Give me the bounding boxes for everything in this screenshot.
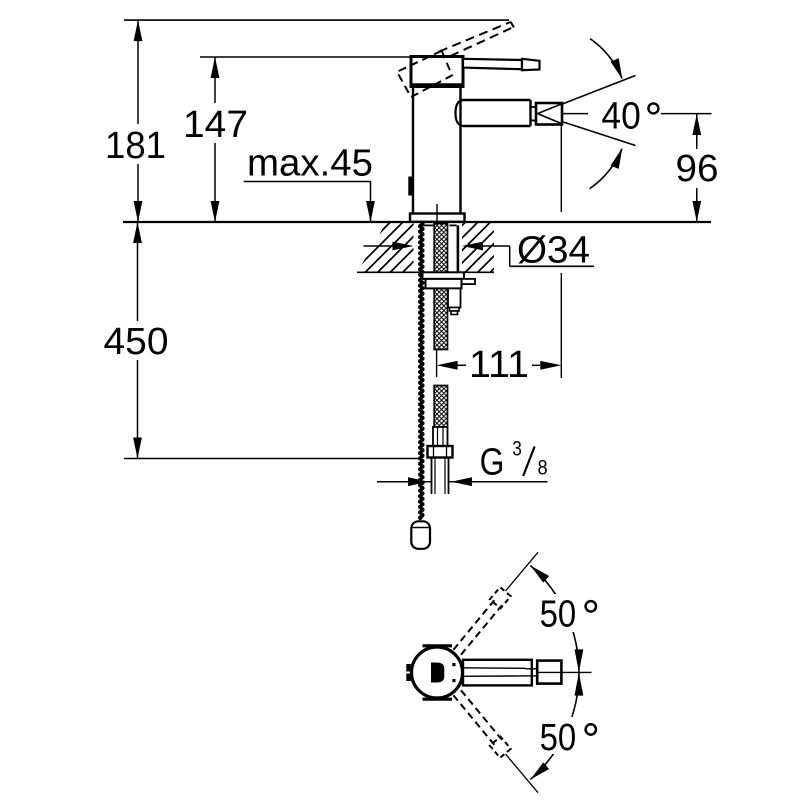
svg-text:50: 50 — [540, 717, 577, 759]
svg-text:40: 40 — [601, 96, 640, 138]
svg-text:96: 96 — [676, 148, 719, 190]
svg-text:50: 50 — [540, 594, 577, 636]
svg-text:450: 450 — [104, 321, 169, 363]
svg-text:111: 111 — [469, 344, 529, 386]
svg-text:147: 147 — [183, 104, 248, 146]
svg-text:G: G — [480, 441, 505, 483]
svg-text:max.45: max.45 — [247, 143, 373, 185]
svg-text:3: 3 — [512, 436, 522, 460]
svg-text:8: 8 — [538, 455, 548, 479]
svg-text:181: 181 — [105, 125, 166, 167]
svg-text:Ø34: Ø34 — [517, 230, 590, 272]
